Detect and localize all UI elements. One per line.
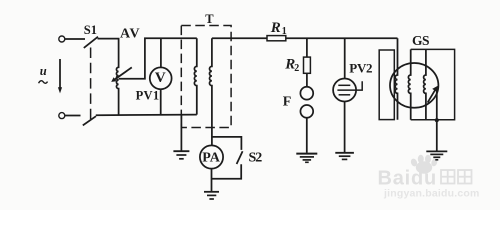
svg-text:PV1: PV1 — [136, 89, 160, 103]
svg-text:T: T — [205, 12, 214, 26]
svg-text:R: R — [270, 20, 281, 36]
svg-text:jingyan.baidu.com: jingyan.baidu.com — [383, 188, 480, 200]
svg-text:1: 1 — [282, 26, 287, 37]
svg-text:F: F — [283, 94, 292, 109]
svg-text:S2: S2 — [249, 151, 263, 166]
svg-text:GS: GS — [412, 33, 429, 48]
svg-text:S1: S1 — [84, 23, 97, 37]
svg-text:Baidu: Baidu — [378, 168, 438, 190]
svg-text:PA: PA — [202, 151, 221, 166]
svg-text:AV: AV — [120, 27, 141, 42]
svg-text:V: V — [155, 70, 166, 86]
svg-text:2: 2 — [294, 63, 299, 74]
svg-text:u: u — [40, 64, 47, 78]
svg-text:PV2: PV2 — [349, 61, 372, 76]
